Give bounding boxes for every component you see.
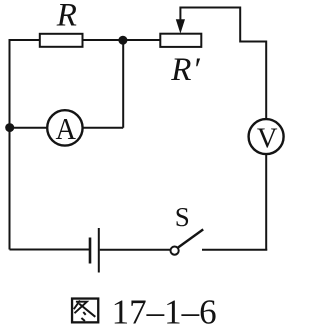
caption glyph 图 (72, 299, 98, 323)
node dot on left wire (5, 123, 14, 132)
ammeter A (47, 110, 82, 146)
svg-text:R′: R′ (170, 52, 200, 88)
wire switch contact to bottom right (202, 249, 267, 251)
wire right vertical below voltmeter (265, 155, 267, 251)
switch S (171, 229, 204, 254)
svg-text:A: A (55, 112, 76, 146)
wire wiper top run (180, 8, 266, 119)
wire battery to switch (100, 249, 171, 251)
voltmeter V (249, 119, 284, 155)
node junction dot (118, 36, 127, 45)
wire junction down to ammeter branch (122, 40, 124, 128)
wire top-left to resistor (9, 39, 40, 41)
wire resistor to rheostat (83, 39, 161, 41)
wire bottom left to battery (10, 249, 90, 251)
resistor R (40, 34, 83, 47)
wiper arrow (176, 19, 185, 33)
wire ammeter left (9, 127, 47, 129)
battery (90, 228, 99, 273)
svg-text:17–1–6: 17–1–6 (112, 292, 217, 326)
svg-text:S: S (175, 202, 190, 232)
svg-text:R: R (56, 0, 77, 34)
wire left vertical (9, 39, 11, 250)
rheostat R' (160, 34, 201, 47)
wire ammeter right (83, 127, 123, 129)
svg-text:V: V (257, 124, 278, 155)
